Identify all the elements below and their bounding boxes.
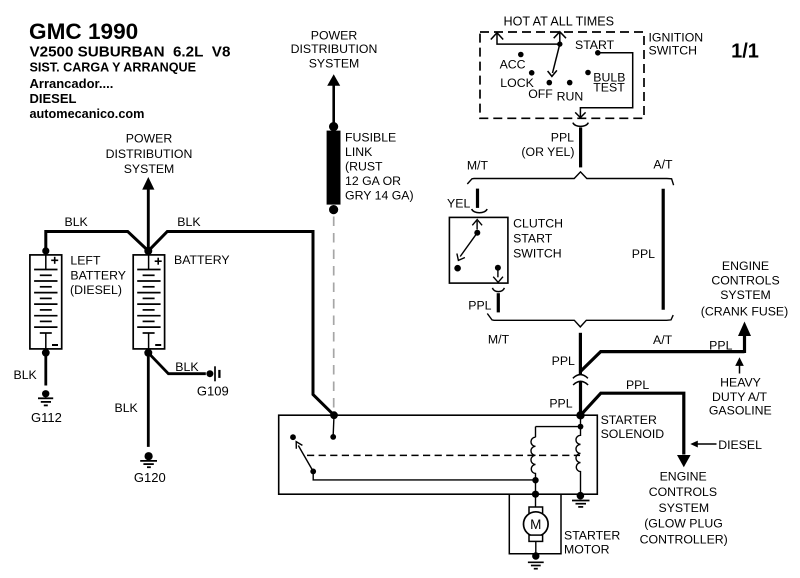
svg-text:STARTER: STARTER [564,528,620,542]
label CLUTCH START SWITCH [513,216,563,260]
svg-text:CLUTCH: CLUTCH [513,216,563,230]
label PPL (OR YEL) [521,130,574,158]
svg-text:FUSIBLE: FUSIBLE [345,130,396,144]
mechanical link (dashed) [307,454,580,456]
ignition position labels [500,38,626,104]
wire coil junction to motor [535,480,537,494]
svg-text:BATTERY: BATTERY [70,268,126,282]
clutch switch contacts [474,230,480,236]
ignition positions dots [518,50,601,85]
wire: dashed gray from fusible link to solenoid [333,217,335,411]
label STARTER SOLENOID [601,413,665,441]
ground at starter motor [528,552,544,568]
svg-text:PPL: PPL [552,354,575,368]
svg-text:DISTRIBUTION: DISTRIBUTION [291,42,378,56]
svg-text:TEST: TEST [593,80,625,94]
node: engine controls system (glow plug controller) [640,469,728,546]
wire PPL A/T branch [662,189,665,310]
ignition switch S1 dashed box [480,32,644,118]
svg-text:YEL: YEL [447,197,470,211]
clutch start switch S2 [449,217,508,283]
wire PPL from connector to solenoid [579,381,582,415]
svg-text:BLK: BLK [115,401,139,415]
solenoid pull-in coil L1 [531,437,536,480]
svg-text:BLK: BLK [177,215,201,229]
svg-text:Arrancador....: Arrancador.... [30,76,114,91]
svg-text:GMC 1990: GMC 1990 [29,19,138,44]
svg-text:automecanico.com: automecanico.com [30,107,145,121]
wire PPL (OR YEL) [579,127,582,167]
solenoid plunger switch arm [296,442,313,472]
label LEFT BATTERY (DIESEL) [70,253,126,297]
node coil junction [532,477,538,483]
svg-text:SYSTEM: SYSTEM [659,501,710,515]
wire from START contact to connector [575,53,633,118]
node: engine controls system (crank fuse) [701,259,788,318]
node contact [330,434,336,440]
svg-text:G120: G120 [134,470,166,485]
svg-text:A/T: A/T [653,333,673,347]
wire PPL merged [579,333,582,374]
label FUSIBLE LINK (RUST 12 GA OR GRY 14 GA) [345,130,414,202]
svg-text:G112: G112 [31,410,62,425]
svg-text:OFF: OFF [528,87,553,101]
wire: BLK bus from left battery to junction [46,232,149,253]
svg-text:MOTOR: MOTOR [564,543,610,557]
wire YEL to clutch start switch [476,189,479,208]
svg-text:PPL: PPL [626,378,649,392]
arrow to power distribution system (left) [142,177,154,251]
fusible link F1 [327,122,341,214]
svg-text:PPL: PPL [632,247,655,261]
branch wire PPL to glow plug controller [581,393,691,467]
svg-text:RUN: RUN [557,90,584,104]
svg-text:DIESEL: DIESEL [30,91,77,106]
svg-text:SOLENOID: SOLENOID [601,427,665,441]
svg-text:START: START [575,38,615,52]
svg-text:DIESEL: DIESEL [718,438,762,452]
svg-text:1/1: 1/1 [731,41,759,63]
starter motor enclosure [509,495,561,554]
node coil tap [578,424,584,430]
inline connector on PPL [573,375,588,385]
splice: split to M/T and A/T [467,172,673,185]
svg-text:(GLOW PLUG: (GLOW PLUG [644,517,723,531]
svg-text:LINK: LINK [345,145,373,159]
svg-text:SYSTEM: SYSTEM [309,57,360,71]
node: junction PPL at solenoid [576,411,584,419]
svg-text:IGNITION: IGNITION [649,31,704,45]
svg-text:ENGINE: ENGINE [722,259,769,273]
svg-text:PPL: PPL [709,338,732,352]
svg-text:HOT AT ALL TIMES: HOT AT ALL TIMES [504,15,615,29]
starter solenoid box [279,415,598,494]
node junction at battery positive [144,247,152,255]
solenoid coil feed wires [536,415,581,437]
svg-text:SWITCH: SWITCH [649,44,698,58]
svg-text:BLK: BLK [65,215,89,229]
solenoid hold-in coil L2 [576,427,581,496]
svg-text:ACC: ACC [500,58,526,72]
svg-text:(CRANK FUSE): (CRANK FUSE) [701,304,788,318]
svg-text:GRY 14 GA): GRY 14 GA) [345,189,414,203]
label IGNITION SWITCH [649,31,704,58]
svg-text:POWER: POWER [126,132,173,146]
svg-text:PPL: PPL [468,298,491,312]
svg-text:ENGINE: ENGINE [660,469,707,483]
wire: BLK bus from junction to starter solenoid [148,232,334,416]
node fixed contact [290,434,296,440]
wire PPL below clutch switch [497,293,500,312]
svg-text:START: START [513,232,553,246]
svg-text:(OR YEL): (OR YEL) [521,145,574,159]
solenoid: battery contact stem [332,415,335,435]
ground at solenoid [572,492,590,507]
ignition switch feed wire with arrows [491,32,566,44]
svg-text:GASOLINE: GASOLINE [709,404,772,418]
wire from moving contact to coil bottom [313,471,535,480]
diesel pointer [690,441,716,448]
label STARTER MOTOR [564,528,620,556]
svg-text:SWITCH: SWITCH [513,247,562,261]
svg-text:(DIESEL): (DIESEL) [70,283,122,297]
arrow to power distribution system (middle) [327,74,340,122]
node moving contact [310,469,316,475]
svg-text:PPL: PPL [551,130,574,144]
node: power distribution label (middle) [291,29,378,71]
svg-text:A/T: A/T [653,157,673,171]
svg-text:POWER: POWER [311,29,358,43]
svg-text:M: M [530,517,541,532]
svg-text:(RUST: (RUST [345,159,383,173]
starter motor M1 [524,494,549,553]
battery B2 (main BATTERY) [133,255,164,357]
svg-text:M/T: M/T [467,159,489,173]
node at box bottom [532,491,539,498]
clutch switch arm [457,233,477,261]
svg-text:V2500 SUBURBAN 6.2L V8: V2500 SUBURBAN 6.2L V8 [30,44,231,61]
svg-text:DISTRIBUTION: DISTRIBUTION [106,147,193,161]
svg-text:SYSTEM: SYSTEM [124,162,175,176]
svg-text:HEAVY: HEAVY [720,375,761,389]
svg-text:BLK: BLK [14,368,38,382]
svg-text:CONTROLS: CONTROLS [711,273,779,287]
svg-text:PPL: PPL [549,397,572,411]
branch wire PPL to crank fuse [580,322,751,372]
svg-text:BATTERY: BATTERY [174,253,230,267]
svg-text:STARTER: STARTER [601,413,657,427]
connector cup below ignition switch [573,123,588,127]
node pivot [557,41,562,46]
svg-text:DUTY A/T: DUTY A/T [712,390,768,404]
svg-text:G109: G109 [197,384,229,399]
title block [29,19,230,121]
svg-text:CONTROLLER): CONTROLLER) [640,532,728,546]
splice: merge M/T and A/T [487,314,673,327]
svg-text:CONTROLS: CONTROLS [649,485,717,499]
connector cup above clutch switch [472,209,487,213]
ground G109 [148,353,228,399]
clutch switch entry arrow [472,220,482,230]
ignition switch rotor arm to OFF [548,44,560,76]
svg-text:M/T: M/T [488,333,510,347]
svg-text:LEFT: LEFT [70,253,101,267]
clutch switch exit arrow [493,268,503,283]
node: power distribution label (left) [106,132,193,177]
svg-text:12 GA OR: 12 GA OR [345,174,401,188]
svg-text:BLK: BLK [175,360,199,374]
connector cup below clutch switch [492,288,504,292]
heavy duty A/T gasoline pointer [735,357,744,373]
svg-text:SIST. CARGA Y ARRANQUE: SIST. CARGA Y ARRANQUE [30,61,197,75]
svg-text:SYSTEM: SYSTEM [720,288,771,302]
ground G120 [115,353,166,485]
battery B1 (LEFT BATTERY DIESEL) [30,247,62,356]
ground G112 [14,353,62,425]
node: junction BLK at solenoid [330,411,338,419]
